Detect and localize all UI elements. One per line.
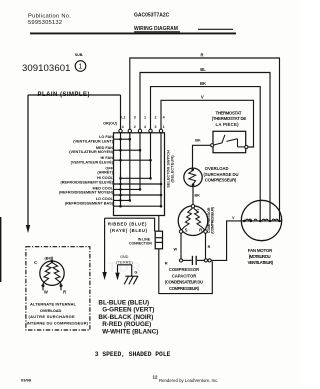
in line connector J1 — [155, 216, 162, 249]
svg-text:(AUTRE SURCHARGE: (AUTRE SURCHARGE — [29, 314, 76, 319]
wire color legend — [98, 300, 158, 336]
svg-text:(VENTILATEUR LENT): (VENTILATEUR LENT) — [73, 139, 114, 143]
svg-text:R: R — [200, 52, 203, 57]
svg-text:BK-BLACK (NOIR): BK-BLACK (NOIR) — [98, 314, 153, 321]
svg-text:C: C — [196, 208, 199, 213]
svg-text:GAC053T7A2C: GAC053T7A2C — [134, 13, 170, 19]
svg-text:4: 4 — [144, 125, 146, 129]
header short rule right — [198, 28, 233, 30]
svg-text:1: 1 — [144, 115, 146, 119]
svg-text:BL: BL — [200, 67, 206, 72]
svg-text:R: R — [165, 261, 168, 266]
svg-text:BL-BLUE (BLEU): BL-BLUE (BLEU) — [98, 300, 149, 307]
selector switch box — [114, 133, 165, 216]
ground GND label — [116, 255, 133, 264]
ribbed neutral wire — [105, 218, 155, 231]
wire loop V — [161, 100, 254, 147]
svg-text:(MOTEUR DU: (MOTEUR DU — [249, 254, 271, 259]
thermostat TH1 — [211, 131, 248, 152]
svg-text:OVERLOAD: OVERLOAD — [205, 166, 229, 171]
thermostat label — [212, 111, 247, 127]
svg-text:(REFROIDISSEMENT BAS): (REFROIDISSEMENT BAS) — [65, 201, 114, 205]
wire loop BL — [140, 73, 270, 221]
svg-text:RIBBED (BLUE): RIBBED (BLUE) — [108, 221, 147, 226]
wire R return loop to capacitor — [159, 249, 213, 294]
svg-text:V: V — [201, 95, 204, 100]
svg-text:INTERNE DU COMPRESSEUR): INTERNE DU COMPRESSEUR) — [27, 320, 89, 325]
ground cord down arrow — [115, 273, 119, 281]
svg-text:(CONDENSATEUR DU: (CONDENSATEUR DU — [165, 280, 203, 285]
watermark — [96, 172, 143, 275]
run capacitor C1 — [179, 256, 211, 265]
wire overload to compressor — [192, 186, 194, 204]
svg-text:(SELECTEUR): (SELECTEUR) — [170, 155, 174, 183]
svg-text:(SURCHARGE DU: (SURCHARGE DU — [204, 172, 239, 177]
alternate overload terminal C — [51, 257, 54, 263]
fan motor label — [248, 248, 274, 265]
alternate overload terminal labels — [34, 257, 66, 295]
svg-text:VENTILATEUR): VENTILATEUR) — [248, 260, 274, 265]
header publication number — [28, 13, 71, 25]
ground wires — [118, 265, 132, 276]
svg-text:309103601: 309103601 — [22, 63, 70, 74]
svg-text:(VENTILATEUR ÉLEVÉ): (VENTILATEUR ÉLEVÉ) — [71, 159, 114, 164]
svg-text:R-RED (ROUGE): R-RED (ROUGE) — [102, 321, 151, 328]
svg-text:1: 1 — [163, 125, 165, 129]
selector junction dots — [119, 138, 162, 208]
svg-text:R: R — [199, 227, 202, 232]
plain switch box outline — [28, 95, 121, 225]
compressor M1 — [178, 205, 208, 236]
svg-text:4: 4 — [163, 115, 165, 119]
svg-text:G: G — [134, 271, 137, 275]
capacitor label — [165, 267, 203, 291]
svg-text:W: W — [44, 290, 48, 295]
svg-text:1: 1 — [79, 64, 83, 71]
svg-text:(VENTILATEUR MOYEN): (VENTILATEUR MOYEN) — [69, 150, 114, 154]
svg-text:ALTERNATE INTERNAL: ALTERNATE INTERNAL — [30, 302, 77, 307]
selector column lines — [121, 133, 162, 207]
svg-text:12: 12 — [153, 375, 159, 380]
svg-text:PLAIN (SIMPLE): PLAIN (SIMPLE) — [38, 92, 90, 98]
ribbed wire label — [108, 221, 148, 233]
wire compressor R to capacitor — [205, 233, 207, 258]
svg-text:4: 4 — [122, 125, 124, 129]
svg-text:(THERMOSTAT DE: (THERMOSTAT DE — [212, 116, 247, 121]
neutral cord down arrow — [102, 218, 106, 280]
wire loop BK — [151, 87, 261, 221]
svg-text:V: V — [232, 216, 235, 220]
svg-text:COMPRESSOR: COMPRESSOR — [169, 267, 199, 272]
alternate overload dashed box — [26, 247, 90, 330]
svg-text:OVERLOAD: OVERLOAD — [40, 308, 62, 313]
svg-text:(REFROIDISSEMENT MOYEN): (REFROIDISSEMENT MOYEN) — [59, 191, 114, 195]
svg-text:BK: BK — [195, 139, 201, 143]
svg-text:COMPRESSEUR): COMPRESSEUR) — [169, 286, 200, 291]
selector contact rows — [114, 139, 162, 206]
svg-text:(ARRÊT): (ARRÊT) — [97, 170, 113, 175]
wire compressor S to capacitor W — [180, 233, 182, 258]
wire L1 feed from plain box — [120, 95, 122, 129]
svg-text:2: 2 — [155, 115, 157, 119]
wire capacitor to fan V — [211, 221, 241, 261]
svg-text:BK: BK — [195, 194, 201, 198]
selector terminals — [119, 129, 163, 132]
svg-text:(REFROIDISSEMENT ÉLEVÉ): (REFROIDISSEMENT ÉLEVÉ) — [60, 179, 113, 184]
svg-text:(COMPRESSEUR): (COMPRESSEUR) — [211, 206, 215, 233]
header main rule — [30, 32, 236, 34]
svg-text:C: C — [34, 260, 37, 265]
svg-text:(BK): (BK) — [44, 257, 53, 261]
svg-text:R: R — [63, 290, 66, 295]
svg-text:CAPACITOR: CAPACITOR — [172, 273, 197, 278]
svg-text:BK: BK — [200, 81, 206, 86]
overload label — [204, 166, 239, 182]
svg-text:Rendered by LeadVenture, Inc.: Rendered by LeadVenture, Inc. — [159, 378, 218, 383]
svg-text:5995305132: 5995305132 — [28, 20, 62, 26]
line cord down arrow L1 — [26, 225, 30, 233]
svg-text:(TERRE): (TERRE) — [116, 260, 133, 264]
svg-text:S: S — [185, 227, 188, 232]
svg-text:FAN MOTOR: FAN MOTOR — [248, 248, 273, 253]
alternate overload motor circle — [40, 261, 64, 290]
svg-text:THERMOSTAT: THERMOSTAT — [216, 111, 242, 116]
svg-text:G-GREEN (VERT): G-GREEN (VERT) — [102, 307, 154, 314]
fan motor M2 — [241, 200, 281, 240]
svg-text:Publication No.: Publication No. — [28, 13, 71, 19]
wire thermostat to overload BK — [193, 145, 211, 168]
compressor rotated label — [207, 206, 215, 233]
alternate overload caption — [27, 302, 89, 326]
svg-text:W: W — [174, 247, 178, 251]
svg-text:CONNECTION: CONNECTION — [129, 242, 152, 246]
svg-text:R: R — [208, 245, 211, 249]
svg-text:SUB.: SUB. — [75, 53, 84, 57]
svg-text:L1: L1 — [121, 115, 125, 119]
header WIRING DIAGRAM title — [134, 26, 180, 32]
switch position labels — [59, 135, 114, 205]
svg-text:3: 3 — [134, 115, 136, 119]
svg-text:(RAYÉ) (BLEU): (RAYÉ) (BLEU) — [110, 228, 148, 233]
earth ground symbol — [124, 276, 138, 284]
svg-text:3 SPEED, SHADED POLE: 3 SPEED, SHADED POLE — [95, 351, 171, 358]
svg-text:W-WHITE (BLANC): W-WHITE (BLANC) — [102, 328, 158, 335]
svg-text:3: 3 — [155, 125, 157, 129]
terminal labels row 2 — [122, 125, 165, 129]
selector switch rotated label — [166, 150, 174, 188]
svg-text:03/98: 03/98 — [21, 377, 32, 382]
terminal labels row 1 — [121, 115, 164, 119]
svg-text:LA PIÈCE): LA PIÈCE) — [216, 122, 240, 127]
svg-text:OR(OU): OR(OU) — [103, 122, 118, 126]
overload OL1 — [184, 168, 202, 186]
in line connector label — [129, 238, 152, 246]
wire loop R — [130, 58, 280, 221]
svg-text:WIRING DIAGRAM: WIRING DIAGRAM — [134, 26, 178, 32]
svg-text:COMPRESSEUR): COMPRESSEUR) — [205, 177, 237, 182]
svg-text:2: 2 — [134, 125, 136, 129]
scan edge artifact — [0, 217, 1, 282]
revision circle 1 — [75, 61, 86, 72]
svg-text:GND: GND — [120, 255, 129, 259]
